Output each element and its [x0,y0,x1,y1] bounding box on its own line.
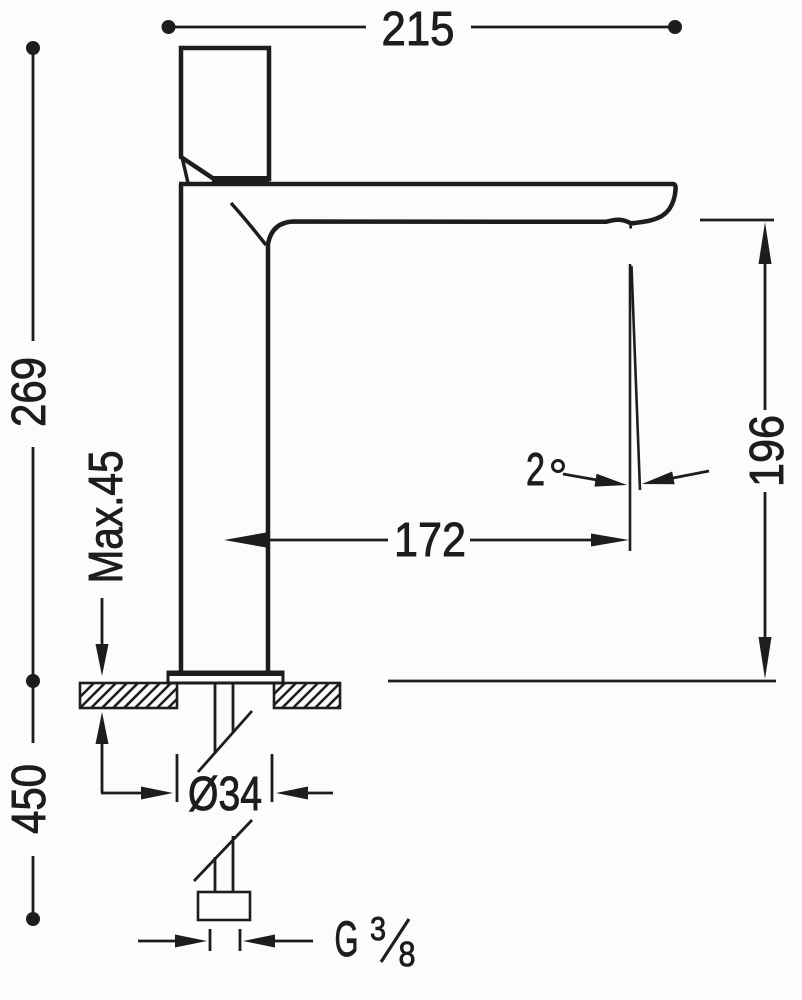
dimension 196: top arrowhead (up) [759,222,772,264]
dimension 196: bottom extension line [388,680,776,683]
faucet spout underside with aerator notch and body fillet [268,219,655,672]
svg-text:2: 2 [526,443,545,495]
dimension 196: top extension line [700,219,774,222]
svg-text:Max.45: Max.45 [80,451,133,584]
left vertical dimension line: segment between 269 and 450 [32,447,35,676]
Max.45 lower arrow shaft down to corner [101,743,104,793]
Max.45 upper arrowhead (down) [96,644,109,676]
svg-text:Ø34: Ø34 [188,768,262,821]
faucet base flange thick top edge [168,672,283,676]
faucet handle outline [181,48,269,179]
countertop deck right slab [274,683,340,708]
dimension 196: lower shaft [764,492,767,639]
left vertical dimension line: bottom dot [26,912,40,926]
svg-text:215: 215 [382,3,455,56]
dimension 196: upper shaft [764,263,767,410]
dimension Ø34: right arrow shaft [307,792,333,795]
svg-text:8: 8 [399,935,416,974]
2 degree label circle [553,461,564,472]
Max.45 upper arrow shaft [101,598,104,648]
dimension Ø34: right arrowhead [276,787,308,800]
dimension 215 top: left dot [162,20,176,34]
2 degree right leader line [673,471,709,478]
2 degree right arrowhead [642,472,675,485]
svg-text:172: 172 [394,514,466,567]
faucet handle lever wedge line [182,157,188,183]
G3/8 connector block [198,892,250,920]
svg-text:450: 450 [3,764,56,834]
dimension G3/8: left arrowhead [175,935,207,948]
countertop deck left slab [80,683,177,708]
supply pipe upper stub left line [214,683,217,752]
supply pipe break diagonal upper [198,711,252,772]
faucet spout-body junction diagonal [231,203,266,245]
dimension 172: right arrowhead [591,534,629,547]
dimension 196: bottom arrowhead (down) [759,637,772,679]
supply pipe upper stub right line [232,683,235,733]
dimension 215 top: right line segment [471,26,671,29]
dimension G3/8: right extension tick [239,929,242,951]
faucet aerator seam spike [629,223,632,229]
G 3/8 thread label [335,910,416,974]
left vertical dimension line: segment below middle dot [32,687,35,743]
faucet spout top edge and rounded nose [179,184,676,219]
dimension G3/8: left arrow shaft [138,940,176,943]
dimension G3/8: right arrow shaft [274,940,313,943]
countertop deck left slab hatching [80,683,177,708]
left vertical dimension line: middle dot [26,674,40,688]
left vertical dimension line: top dot [26,41,40,55]
supply pipe break diagonal lower [194,820,252,881]
Max.45 lower arrowhead (up) [96,712,109,744]
left vertical dimension line: segment above 269 [32,53,35,341]
dimension Ø34: left arrow shaft [101,792,142,795]
svg-text:269: 269 [3,357,56,427]
countertop deck right slab hatching [274,683,340,708]
supply pipe lower stub left line [214,857,217,892]
svg-text:3: 3 [370,910,386,947]
left vertical dimension line: bottom segment [32,856,35,912]
water stream vertical reference line [629,264,632,551]
dimension G3/8: right arrowhead [243,935,275,948]
faucet handle thick bottom edge [212,176,269,182]
faucet body left edge [179,184,184,672]
dimension Ø34: left extension tick [176,754,179,802]
faucet base flange [168,672,283,683]
svg-text:G: G [335,911,359,967]
water stream 2 degree angled line [632,266,641,490]
dimension G3/8: left extension tick [209,929,212,951]
dimension 215 top: left line segment [172,26,366,29]
dimension 172: left shaft [265,539,388,542]
supply pipe lower stub right line [232,836,235,892]
dimension 215 top: right dot [668,20,682,34]
dimension 172: left arrowhead (points to body axis) [224,533,266,548]
G 3/8 fraction slash [381,919,409,962]
svg-text:196: 196 [741,415,794,487]
dimension Ø34: right extension tick [271,754,274,802]
dimension 172: right shaft [470,539,592,542]
2 degree left arrowhead [594,474,627,487]
dimension Ø34: left arrowhead [141,787,173,800]
2 degree left leader line [563,474,597,480]
